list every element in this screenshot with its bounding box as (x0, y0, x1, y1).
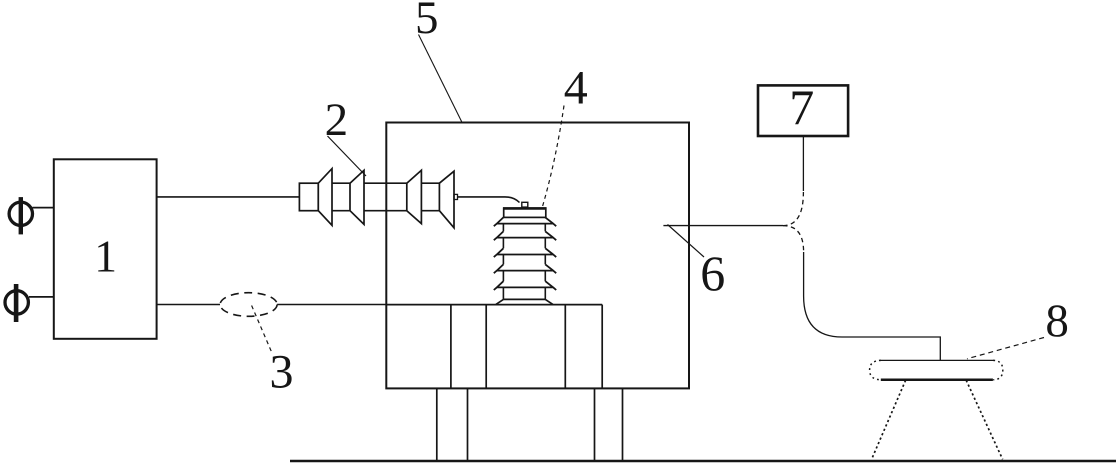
insulator 4: shed 5 (494, 281, 556, 290)
svg-text:2: 2 (325, 94, 349, 146)
insulator 4: core 4 (503, 271, 545, 282)
fork upper curve (783, 192, 803, 226)
insulator 4: top nub (522, 202, 528, 207)
insulator 4: core 2 (503, 238, 545, 249)
wire bottom left (box1 to ellipse 3) (157, 304, 220, 306)
pedestal verticals (451, 305, 602, 389)
box 5 (test chamber) (386, 123, 689, 389)
pedestal top line (386, 304, 602, 306)
stool 8 seat top (879, 359, 994, 361)
label 4 leader (543, 106, 565, 207)
wire bottom right (ellipse 3 to box 5) (277, 304, 386, 306)
svg-text:4: 4 (564, 62, 588, 115)
bushing 2: bell 1 (318, 169, 332, 226)
stool leg left (dotted) (872, 380, 906, 459)
insulator 4: core 1 (503, 224, 545, 232)
insulator 4: top cap (504, 208, 546, 217)
bushing 2: end cap (299, 183, 318, 211)
insulator 4: shed 3 (494, 248, 556, 257)
cable box7 down (802, 136, 804, 191)
insulator 4: core 3 (503, 255, 545, 265)
box 1 (power source) (54, 159, 157, 338)
insulator 4: bottom flange (496, 299, 553, 304)
stool 8 seat dotted right cap (993, 360, 1003, 379)
leg left (437, 388, 468, 460)
box 7 (instrument) (758, 85, 848, 136)
terminal phi top (9, 197, 54, 234)
cable horizontal into box 5 (663, 225, 783, 227)
label 5 leader (419, 35, 463, 123)
bushing 2: bell 2 (350, 170, 364, 224)
label 3 leader (252, 306, 272, 354)
wire bushing to insulator 4 (458, 197, 520, 203)
ellipse 3 (dashed sensor) (220, 293, 277, 317)
label 8 leader (967, 338, 1044, 359)
insulator 4: shed 4 (494, 264, 556, 273)
wire top (box1 to bushing 2) (157, 196, 299, 198)
terminal phi bottom (5, 284, 55, 322)
bushing 2: bell 3 (407, 170, 422, 223)
cable down and bend to stool (804, 252, 941, 360)
svg-text:1: 1 (94, 231, 117, 282)
bushing 2: tip nub (454, 194, 458, 199)
svg-text:7: 7 (789, 79, 814, 135)
bushing 2: bell 4 (439, 171, 454, 228)
svg-text:5: 5 (415, 0, 439, 44)
svg-text:6: 6 (700, 245, 725, 301)
insulator 4: shed 1 (494, 217, 556, 226)
svg-text:8: 8 (1045, 295, 1069, 347)
stool 8 seat bottom (881, 379, 993, 382)
svg-text:3: 3 (270, 346, 294, 399)
fork lower curve (783, 226, 804, 252)
ground line (290, 460, 1116, 463)
label 6 leader (668, 225, 705, 258)
insulator 4: shed 2 (494, 231, 556, 240)
insulator 4: core 5 (503, 287, 545, 299)
leg right (595, 388, 623, 460)
stool 8 seat dotted left cap (870, 360, 881, 379)
stool leg right (dotted) (966, 380, 1002, 459)
label 2 leader (328, 136, 367, 176)
bushing 2: tube (318, 182, 439, 184)
